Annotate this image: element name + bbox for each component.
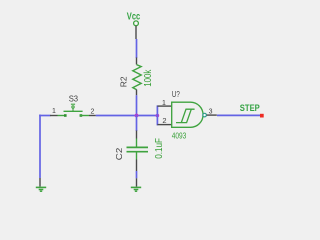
svg-text:2: 2 <box>162 116 166 125</box>
pin stub from VCC terminal <box>135 26 137 39</box>
switch S3 right contact dot <box>80 114 83 117</box>
junction dot <box>135 114 139 118</box>
wire left vertical drop <box>39 115 41 179</box>
capacitor C2 bottom stem <box>136 153 138 160</box>
gate pin 2 wire <box>157 124 171 126</box>
capacitor C2 bottom plate <box>127 151 149 153</box>
svg-text:1: 1 <box>162 100 166 107</box>
svg-text:4093: 4093 <box>172 131 187 140</box>
capacitor C2 top stem <box>136 139 138 147</box>
gate pin 1 wire <box>157 105 171 107</box>
svg-text:STEP: STEP <box>240 103 260 113</box>
output bubble <box>203 113 207 117</box>
center ground pin stub <box>136 178 138 186</box>
svg-text:100k: 100k <box>143 69 154 87</box>
capacitor C2 top pin <box>136 131 138 139</box>
svg-text:0.1uF: 0.1uF <box>154 138 165 159</box>
power terminal VCC circle <box>134 21 139 26</box>
center ground <box>131 187 141 191</box>
svg-text:R2: R2 <box>118 76 128 87</box>
wire gate output to STEP <box>217 114 260 116</box>
left ground pin stub <box>39 178 41 187</box>
gate output pin stub <box>207 114 217 116</box>
connection dot at gate input <box>156 114 160 118</box>
switch S3 actuator circle <box>72 106 74 108</box>
left ground <box>36 187 46 191</box>
capacitor C2 bottom pin <box>136 160 138 172</box>
switch S3 left lead <box>58 115 67 117</box>
wire S3 to gate inputs <box>96 115 158 117</box>
switch S3 right pin stub <box>89 115 96 117</box>
wire VCC to R2 <box>136 39 138 58</box>
gate input tie vertical <box>156 105 158 125</box>
resistor R2 bottom pin <box>136 90 138 96</box>
switch S3 right lead <box>80 115 90 117</box>
switch S3 left contact dot <box>64 114 67 117</box>
schmitt trigger symbol <box>176 109 191 122</box>
resistor R2 top pin <box>136 58 138 65</box>
NAND gate U? (4093 schmitt) body <box>172 102 203 127</box>
svg-text:2: 2 <box>90 108 94 115</box>
wire C2 to ground <box>136 171 138 178</box>
wire left corner horizontal <box>39 115 50 117</box>
switch S3 actuator bar <box>64 110 83 112</box>
switch S3 actuator cap <box>71 103 75 105</box>
switch S3 actuator stem <box>72 108 74 111</box>
svg-text:U?: U? <box>172 89 180 99</box>
wire junction to C2 <box>136 115 138 132</box>
STEP terminal red square <box>260 114 264 118</box>
svg-text:Vcc: Vcc <box>127 12 141 23</box>
wire R2 to junction <box>136 95 138 116</box>
svg-text:C2: C2 <box>114 147 124 160</box>
svg-text:1: 1 <box>52 108 56 115</box>
switch S3 left pin stub <box>50 115 58 117</box>
capacitor C2 top plate <box>127 146 149 148</box>
svg-text:S3: S3 <box>69 94 79 104</box>
resistor R2 zigzag <box>133 65 141 90</box>
